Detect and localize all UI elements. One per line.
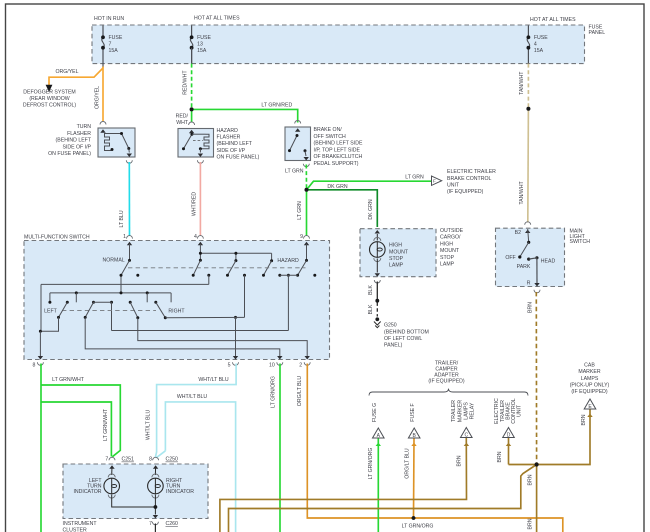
svg-text:NORMAL: NORMAL (102, 258, 124, 264)
svg-text:WHT/RED: WHT/RED (192, 192, 198, 216)
svg-text:BRN: BRN (527, 302, 533, 313)
svg-text:(IF EQUIPPED): (IF EQUIPPED) (447, 189, 484, 195)
svg-text:LAMPS: LAMPS (463, 402, 469, 420)
svg-text:FUSE G: FUSE G (372, 403, 378, 422)
svg-text:LT BLU: LT BLU (119, 210, 125, 227)
svg-text:4: 4 (194, 234, 197, 240)
svg-text:STOP: STOP (440, 255, 455, 261)
svg-text:7: 7 (109, 42, 112, 48)
svg-text:OFF SWITCH: OFF SWITCH (314, 134, 347, 140)
svg-text:PEDAL SUPPORT): PEDAL SUPPORT) (314, 161, 359, 167)
svg-text:HAZARD: HAZARD (217, 128, 239, 134)
svg-text:CARGO/: CARGO/ (440, 235, 461, 241)
svg-text:D: D (507, 433, 511, 439)
svg-text:OUTSIDE: OUTSIDE (440, 228, 464, 234)
svg-text:ORG/LT BLU: ORG/LT BLU (297, 376, 303, 407)
svg-text:HOT AT ALL TIMES: HOT AT ALL TIMES (194, 16, 240, 22)
svg-text:F: F (433, 179, 436, 184)
svg-text:FUSE: FUSE (534, 35, 548, 41)
svg-text:PANEL: PANEL (589, 30, 606, 36)
svg-text:LT GRN/RED: LT GRN/RED (261, 103, 292, 109)
svg-text:FUSE: FUSE (197, 35, 211, 41)
svg-text:10: 10 (269, 363, 275, 369)
svg-text:UNIT: UNIT (447, 182, 460, 188)
svg-text:ON FUSE PANEL): ON FUSE PANEL) (217, 155, 260, 161)
svg-text:15A: 15A (534, 48, 544, 54)
svg-text:(PICK-UP ONLY): (PICK-UP ONLY) (570, 382, 610, 388)
svg-text:INDICATOR: INDICATOR (73, 489, 101, 495)
svg-text:(BEHIND LEFT: (BEHIND LEFT (217, 141, 253, 147)
svg-text:HAZARD: HAZARD (277, 258, 299, 264)
svg-text:STOP: STOP (389, 256, 404, 262)
svg-text:ELECTRIC TRAILER: ELECTRIC TRAILER (447, 169, 496, 175)
svg-text:LT GRN/ORG: LT GRN/ORG (368, 448, 374, 480)
svg-text:I/P, TOP LEFT SIDE: I/P, TOP LEFT SIDE (314, 147, 361, 153)
svg-text:INSTRUMENT: INSTRUMENT (63, 521, 98, 527)
svg-text:C251: C251 (122, 457, 135, 463)
svg-text:DK GRN: DK GRN (327, 184, 347, 190)
svg-text:HIGH: HIGH (440, 241, 453, 247)
svg-text:WHT/LT BLU: WHT/LT BLU (198, 377, 229, 383)
svg-text:HOT AT ALL TIMES: HOT AT ALL TIMES (530, 17, 576, 23)
svg-text:SIDE OF I/P: SIDE OF I/P (62, 144, 91, 150)
svg-text:ON FUSE PANEL): ON FUSE PANEL) (48, 151, 91, 157)
svg-text:BRAKE ON/: BRAKE ON/ (314, 127, 343, 133)
svg-text:MARKER: MARKER (457, 400, 463, 422)
svg-text:HOT IN RUN: HOT IN RUN (94, 16, 124, 22)
svg-text:8: 8 (149, 457, 152, 463)
svg-text:LT GRN: LT GRN (297, 201, 303, 220)
svg-text:7: 7 (105, 457, 108, 463)
svg-text:DEFROST CONTROL): DEFROST CONTROL) (23, 103, 76, 109)
svg-text:(BEHIND LEFT SIDE: (BEHIND LEFT SIDE (314, 141, 363, 147)
svg-text:WHT/LT BLU: WHT/LT BLU (177, 394, 208, 400)
svg-text:15A: 15A (109, 48, 119, 54)
svg-text:MULTI-FUNCTION SWITCH: MULTI-FUNCTION SWITCH (24, 234, 90, 240)
svg-text:TAN/WHT: TAN/WHT (519, 71, 525, 95)
svg-text:ORG/LT BLU: ORG/LT BLU (404, 448, 410, 479)
svg-text:C: C (464, 433, 468, 439)
svg-text:C250: C250 (166, 457, 179, 463)
svg-text:MOUNT: MOUNT (440, 248, 460, 254)
svg-text:BLK: BLK (368, 304, 374, 314)
svg-text:WHT/LT BLU: WHT/LT BLU (145, 410, 151, 441)
svg-text:B2: B2 (515, 230, 521, 236)
svg-text:9: 9 (300, 234, 303, 240)
svg-text:DK GRN: DK GRN (368, 199, 374, 219)
svg-text:(IF EQUIPPED): (IF EQUIPPED) (428, 378, 465, 384)
svg-text:BRAKE CONTROL: BRAKE CONTROL (447, 176, 492, 182)
svg-text:(IF EQUIPPED): (IF EQUIPPED) (571, 389, 608, 395)
svg-text:BRN: BRN (527, 474, 533, 485)
svg-text:15A: 15A (197, 48, 207, 54)
svg-text:CAB: CAB (584, 363, 595, 369)
svg-text:PANEL): PANEL) (384, 343, 403, 349)
svg-text:INDICATOR: INDICATOR (166, 489, 194, 495)
svg-text:(BEHIND LEFT: (BEHIND LEFT (56, 138, 92, 144)
svg-text:TAN/WHT: TAN/WHT (519, 181, 525, 205)
svg-text:4: 4 (534, 42, 537, 48)
svg-text:2: 2 (299, 363, 302, 369)
svg-text:PARK: PARK (517, 264, 531, 270)
svg-text:(REAR WINDOW: (REAR WINDOW (29, 96, 69, 102)
svg-text:CLUSTER: CLUSTER (63, 527, 87, 532)
svg-text:LAMP: LAMP (389, 263, 404, 269)
svg-text:LT GRN/ORG: LT GRN/ORG (271, 376, 277, 408)
svg-text:TRAILER: TRAILER (451, 400, 457, 422)
svg-text:(BEHIND BOTTOM: (BEHIND BOTTOM (384, 329, 429, 335)
svg-text:MOUNT: MOUNT (389, 249, 409, 255)
svg-text:BRN: BRN (581, 414, 587, 425)
svg-text:OFF: OFF (505, 255, 515, 261)
svg-text:LT GRN/WHT: LT GRN/WHT (103, 408, 109, 441)
svg-text:5: 5 (228, 363, 231, 369)
svg-text:FLASHER: FLASHER (67, 131, 91, 137)
svg-text:RED/WHT: RED/WHT (183, 70, 189, 95)
svg-text:TURN: TURN (77, 124, 92, 130)
svg-text:LT GRN/ORG: LT GRN/ORG (402, 523, 434, 529)
svg-text:G250: G250 (384, 323, 397, 329)
svg-text:BRN: BRN (456, 455, 462, 466)
svg-text:UNIT: UNIT (517, 404, 523, 417)
svg-text:LT GRN/WHT: LT GRN/WHT (52, 377, 85, 383)
svg-text:LEFT: LEFT (44, 309, 58, 315)
svg-text:RELAY: RELAY (470, 402, 476, 419)
svg-text:OF LEFT COWL: OF LEFT COWL (384, 336, 422, 342)
svg-text:LAMPS: LAMPS (581, 376, 599, 382)
svg-text:FLASHER: FLASHER (217, 135, 241, 141)
svg-text:DEFOGGER SYSTEM: DEFOGGER SYSTEM (23, 90, 75, 96)
svg-text:BLK: BLK (368, 285, 374, 295)
svg-text:FUSE F: FUSE F (410, 403, 416, 421)
svg-text:HIGH: HIGH (389, 243, 402, 249)
svg-text:8: 8 (33, 363, 36, 369)
svg-text:SIDE OF I/P: SIDE OF I/P (217, 148, 246, 154)
svg-text:RIGHT: RIGHT (168, 309, 185, 315)
svg-text:1: 1 (123, 234, 126, 240)
svg-text:FUSE: FUSE (109, 35, 123, 41)
svg-text:LT GRN: LT GRN (405, 174, 424, 180)
svg-text:MARKER: MARKER (578, 369, 600, 375)
svg-text:ORG/YEL: ORG/YEL (94, 86, 100, 109)
svg-text:BRN: BRN (497, 451, 503, 462)
svg-text:OF BRAKE/CLUTCH: OF BRAKE/CLUTCH (314, 154, 363, 160)
svg-text:SWITCH: SWITCH (570, 239, 591, 245)
svg-text:ORG/YEL: ORG/YEL (55, 69, 78, 75)
svg-text:C260: C260 (166, 521, 179, 527)
svg-text:WHT: WHT (176, 120, 189, 126)
svg-text:BRN: BRN (527, 518, 533, 529)
svg-text:HEAD: HEAD (541, 259, 556, 265)
svg-text:7: 7 (149, 521, 152, 527)
svg-text:13: 13 (197, 42, 203, 48)
svg-text:LT GRN: LT GRN (285, 168, 304, 174)
svg-text:RED/: RED/ (176, 114, 189, 120)
svg-text:R: R (527, 281, 531, 287)
svg-text:LAMP: LAMP (440, 262, 455, 268)
